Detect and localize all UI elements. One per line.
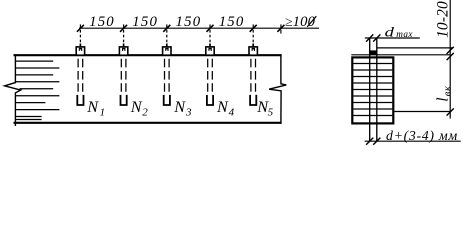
- vertical dimension line 10-20 / l vk: [449, 0, 451, 119]
- section lamella lines: [353, 64, 392, 116]
- nail N5: [249, 30, 257, 105]
- tick at surface level: [447, 53, 454, 60]
- nail N2: [119, 30, 127, 105]
- left break edge with zigzag: [5, 54, 21, 126]
- svg-text:max: max: [396, 29, 413, 39]
- surface level extension line: [351, 54, 450, 56]
- svg-text:d+(3-4) мм: d+(3-4) мм: [386, 128, 458, 144]
- svg-text:10-20: 10-20: [434, 1, 451, 38]
- tick at head top level: [447, 47, 454, 54]
- d max dimension line: [365, 37, 420, 39]
- extension line stubs at dimension ticks: [80, 24, 281, 33]
- nail head in section: [369, 50, 377, 54]
- svg-text:N: N: [216, 97, 229, 116]
- nail N3: [163, 30, 171, 105]
- svg-text:N: N: [173, 97, 186, 116]
- ticks d max: [366, 34, 380, 41]
- svg-text:N: N: [86, 97, 99, 116]
- svg-text:d: d: [385, 26, 396, 41]
- hole line right: [376, 38, 378, 141]
- nail N4: [206, 30, 214, 105]
- nail N1: [76, 30, 84, 105]
- bottom dimension line d+(3-4) mm: [365, 140, 461, 142]
- right break edge with zigzag: [269, 54, 286, 124]
- svg-text:150: 150: [219, 14, 245, 30]
- ticks bottom: [366, 138, 380, 145]
- tick at nail tip level: [447, 108, 454, 115]
- beam top chord line: [14, 54, 282, 56]
- nail tip level extension line: [394, 111, 450, 113]
- svg-text:5: 5: [268, 106, 274, 118]
- beam bottom chord line: [14, 122, 282, 124]
- svg-text:150: 150: [132, 14, 158, 30]
- svg-text:N: N: [130, 97, 143, 116]
- lamella hatch lines (left): [16, 61, 60, 119]
- svg-text:3: 3: [185, 106, 192, 118]
- section rectangle: [352, 57, 393, 123]
- head top level extension line: [377, 47, 453, 49]
- svg-text:2: 2: [142, 106, 148, 118]
- svg-text:150: 150: [176, 14, 202, 30]
- hole line left: [369, 38, 371, 141]
- top dimension line: [79, 27, 319, 29]
- svg-text:4: 4: [229, 106, 235, 118]
- svg-text:1: 1: [100, 106, 106, 118]
- dimension ticks on top line: [77, 25, 285, 32]
- svg-text:150: 150: [89, 14, 115, 30]
